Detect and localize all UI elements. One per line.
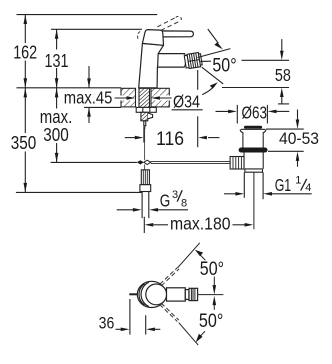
svg-text:4: 4 bbox=[305, 182, 311, 194]
svg-text:Ø34: Ø34 bbox=[173, 92, 200, 112]
svg-text:36: 36 bbox=[99, 313, 115, 332]
svg-text:max.180: max.180 bbox=[170, 213, 231, 233]
svg-text:131: 131 bbox=[45, 51, 69, 71]
svg-text:Ø63: Ø63 bbox=[242, 102, 268, 122]
svg-text:116: 116 bbox=[156, 129, 184, 150]
svg-text:3: 3 bbox=[172, 189, 178, 201]
svg-text:350: 350 bbox=[11, 133, 37, 153]
svg-text:8: 8 bbox=[181, 197, 187, 209]
svg-text:40-53: 40-53 bbox=[279, 130, 319, 148]
svg-text:162: 162 bbox=[13, 43, 37, 63]
svg-text:1: 1 bbox=[295, 174, 301, 186]
svg-text:50°: 50° bbox=[200, 259, 224, 280]
svg-text:58: 58 bbox=[275, 65, 291, 85]
svg-text:G1: G1 bbox=[275, 175, 292, 195]
svg-text:50°: 50° bbox=[199, 311, 223, 332]
svg-text:300: 300 bbox=[43, 125, 69, 145]
svg-text:max.45: max.45 bbox=[64, 88, 113, 108]
svg-text:50°: 50° bbox=[212, 56, 236, 77]
svg-text:G: G bbox=[160, 190, 171, 210]
